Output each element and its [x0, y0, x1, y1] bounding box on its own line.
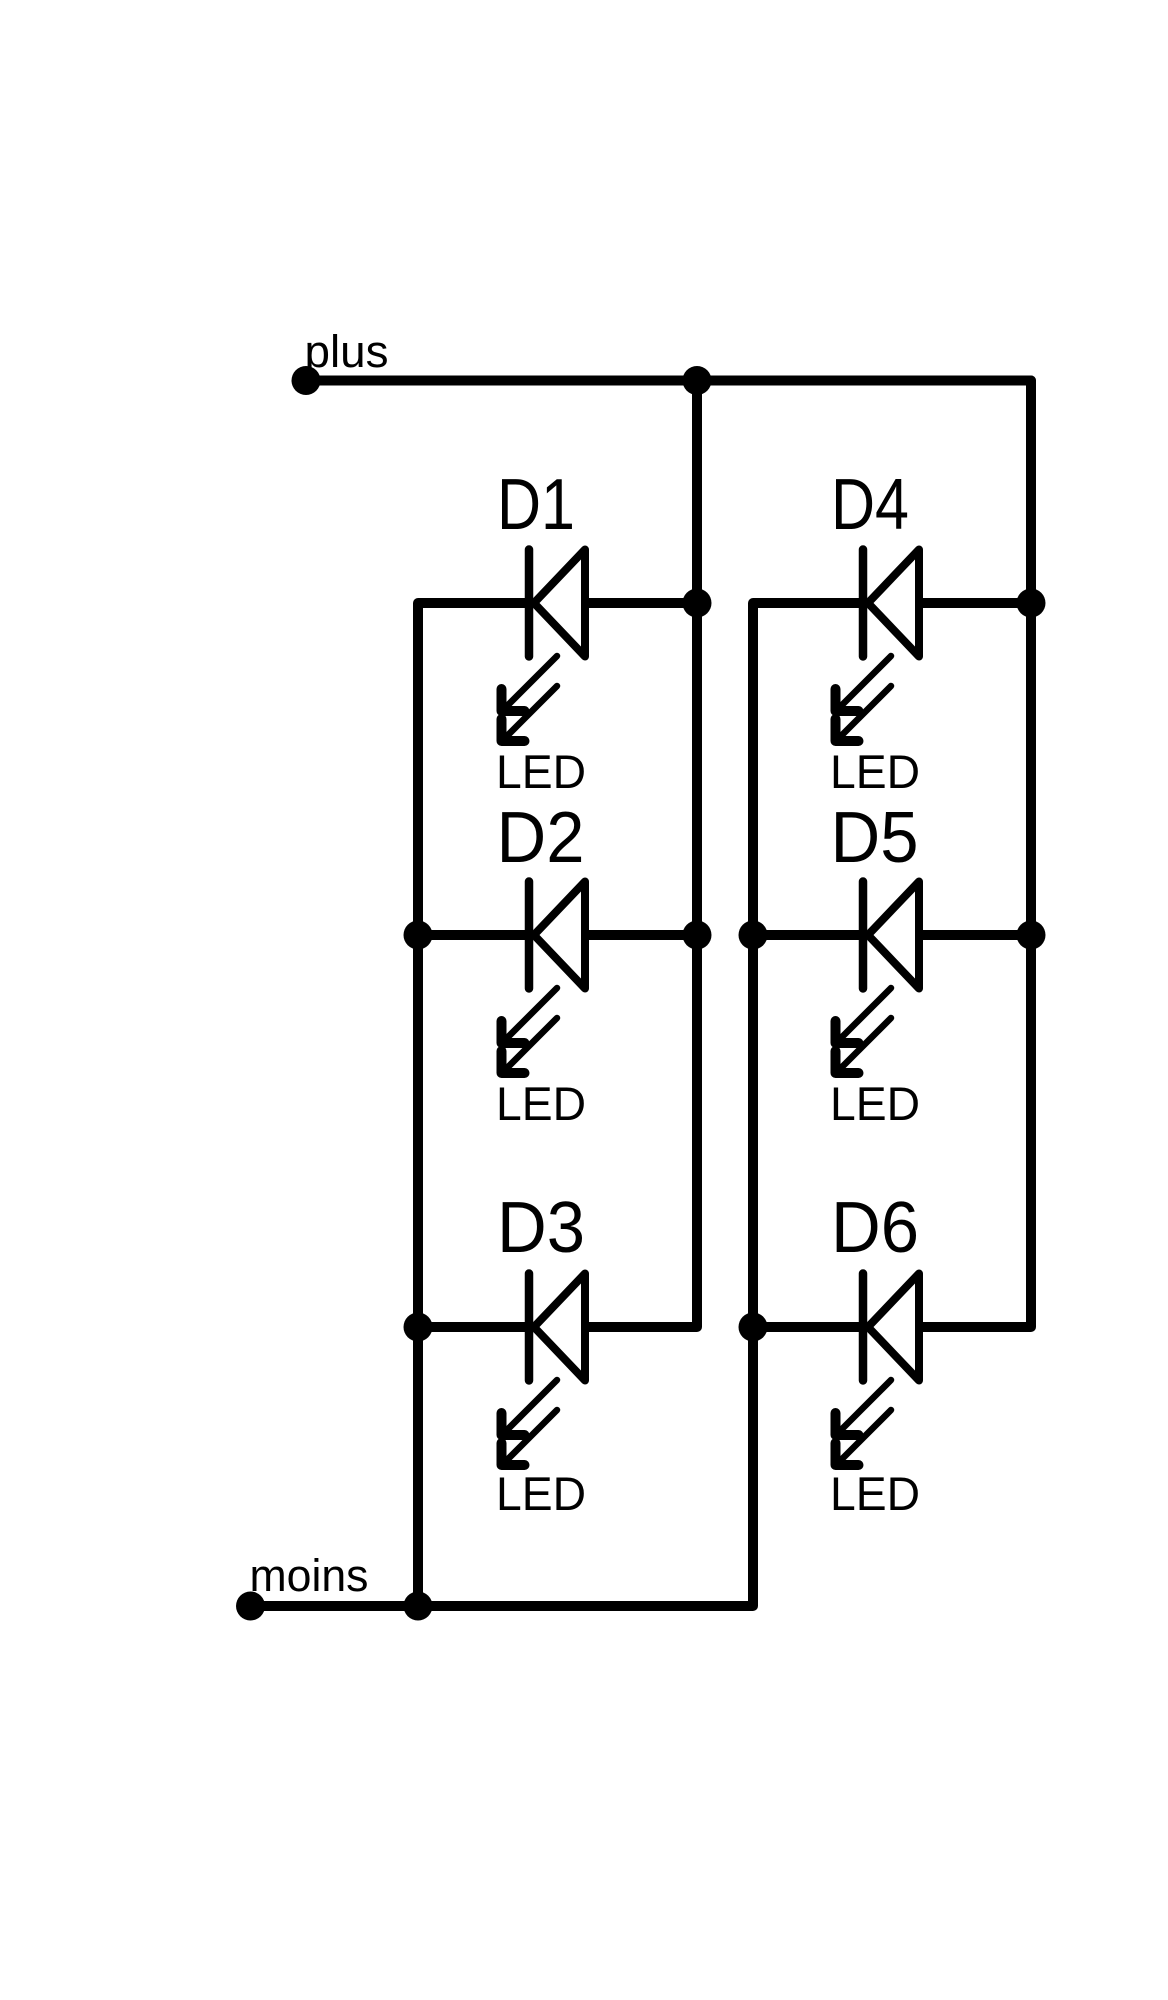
- wire D2 anode: [585, 930, 697, 940]
- junction D5 anode node: [1017, 921, 1046, 950]
- LED D5: [836, 882, 920, 1074]
- plus terminal dot: [292, 366, 321, 395]
- junction D3 cathode node: [404, 1313, 433, 1342]
- wire D3 left: [418, 1322, 529, 1332]
- LED D2: [502, 882, 586, 1074]
- wire plus top rail: [306, 376, 1031, 386]
- wire D2 left: [418, 930, 529, 940]
- wire D1 anode: [585, 598, 697, 608]
- svg-text:moins: moins: [250, 1550, 369, 1601]
- wire D4 anode: [919, 598, 1031, 608]
- LED D1: [502, 550, 586, 742]
- junction D5 cathode node: [739, 921, 768, 950]
- svg-text:LED: LED: [496, 1077, 586, 1130]
- svg-text:plus: plus: [305, 326, 389, 377]
- svg-text:LED: LED: [830, 1467, 920, 1520]
- svg-text:D4: D4: [831, 465, 909, 545]
- svg-text:LED: LED: [830, 745, 920, 798]
- svg-text:D6: D6: [831, 1188, 919, 1268]
- wire D5 left: [753, 930, 863, 940]
- svg-text:D5: D5: [831, 798, 919, 878]
- svg-text:D1: D1: [497, 465, 575, 545]
- wire right vertical rail: [919, 381, 1031, 1328]
- LED D6: [836, 1274, 920, 1466]
- LED D4: [836, 550, 920, 742]
- junction moins left rail: [404, 1592, 433, 1621]
- svg-text:D2: D2: [497, 798, 585, 878]
- wire center vertical rail: [585, 381, 697, 1328]
- wire left column left rail: [418, 603, 529, 1606]
- junction top center: [683, 366, 712, 395]
- junction D6 cathode node: [739, 1313, 768, 1342]
- wire right column left rail: [251, 603, 864, 1606]
- moins terminal dot: [236, 1592, 265, 1621]
- junction D2 cathode node: [404, 921, 433, 950]
- junction D2 anode node: [683, 921, 712, 950]
- svg-text:LED: LED: [496, 1467, 586, 1520]
- svg-text:D3: D3: [497, 1188, 585, 1268]
- LED D3: [502, 1274, 586, 1466]
- svg-text:LED: LED: [496, 745, 586, 798]
- svg-text:LED: LED: [830, 1077, 920, 1130]
- wire D5 anode: [919, 930, 1031, 940]
- wire D6 left: [753, 1322, 863, 1332]
- junction D4 anode node: [1017, 589, 1046, 618]
- junction D1 anode node: [683, 589, 712, 618]
